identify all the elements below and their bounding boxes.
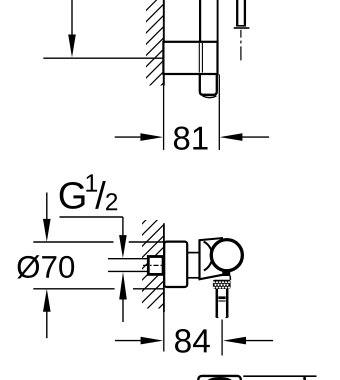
dimension 81: left extension line [163,76,165,150]
dimension text O70 [17,255,74,278]
wall face line (upper wall) [163,0,165,86]
threaded nipple in wall [148,257,163,275]
handle centerline (dash-dot) [240,30,242,61]
G 1/2 label [60,182,85,209]
logo badge fragment (cut at bottom) [198,376,241,380]
neck below knob [222,271,230,276]
G1/2 leader line [60,216,123,218]
hose coupling shank [216,289,219,317]
dimension text 84 [175,329,210,353]
dimension 81: left arrow [115,136,142,138]
dimension 84: left extension line [163,312,165,352]
wall face line (lower wall) [163,223,165,312]
nipple centerline (dash-dot) [143,264,162,266]
pipe lower arrow pointing up [119,272,127,300]
dimension O70: bottom arrow pointing up [43,289,51,312]
rail lower end with cap [200,75,217,95]
shank bottom curls [216,317,219,318]
wall hatching (upper wall) [140,0,166,118]
dimension 81: right extension line [218,75,220,151]
rail edges seen through holder [198,43,200,73]
connection stub [187,252,200,254]
level line (horizontal extension line) [43,57,163,59]
footer rule [243,375,316,377]
footer tick [303,376,306,380]
dimension O70: top extension line [33,241,113,243]
badge inner blob [207,377,233,380]
dimension 84: left arrow [115,340,142,342]
dimension O70: bottom extension line [33,288,114,290]
hand shower handle (cut at top right) [236,0,238,26]
G1/2 leader arrowhead pointing down at pipe [119,235,127,258]
cone face inner arc [204,242,213,271]
dimension text 81 [174,126,208,149]
dimension O70: top arrow pointing down [46,193,48,220]
dimension 81: right arrow [220,133,243,141]
cap under-arc [203,96,217,98]
arrowhead pointing down to level line [68,35,76,58]
knurled hose nut [213,280,231,289]
wire vertical dimension line (cut at top) [71,0,73,35]
supply pipe [108,258,150,260]
shank collar band [218,296,225,299]
dimension 84: right extension line (hose centerline) [221,320,223,356]
valve cone body [198,240,200,279]
shower rail above holder [199,0,201,42]
knob circle [211,240,242,271]
dimension 84: right arrow [223,337,246,345]
wall holder block [163,42,217,74]
escutcheon (wall rosette) [164,242,187,287]
handle end cap line [234,27,250,29]
wall hatching (lower wall) [138,200,166,341]
